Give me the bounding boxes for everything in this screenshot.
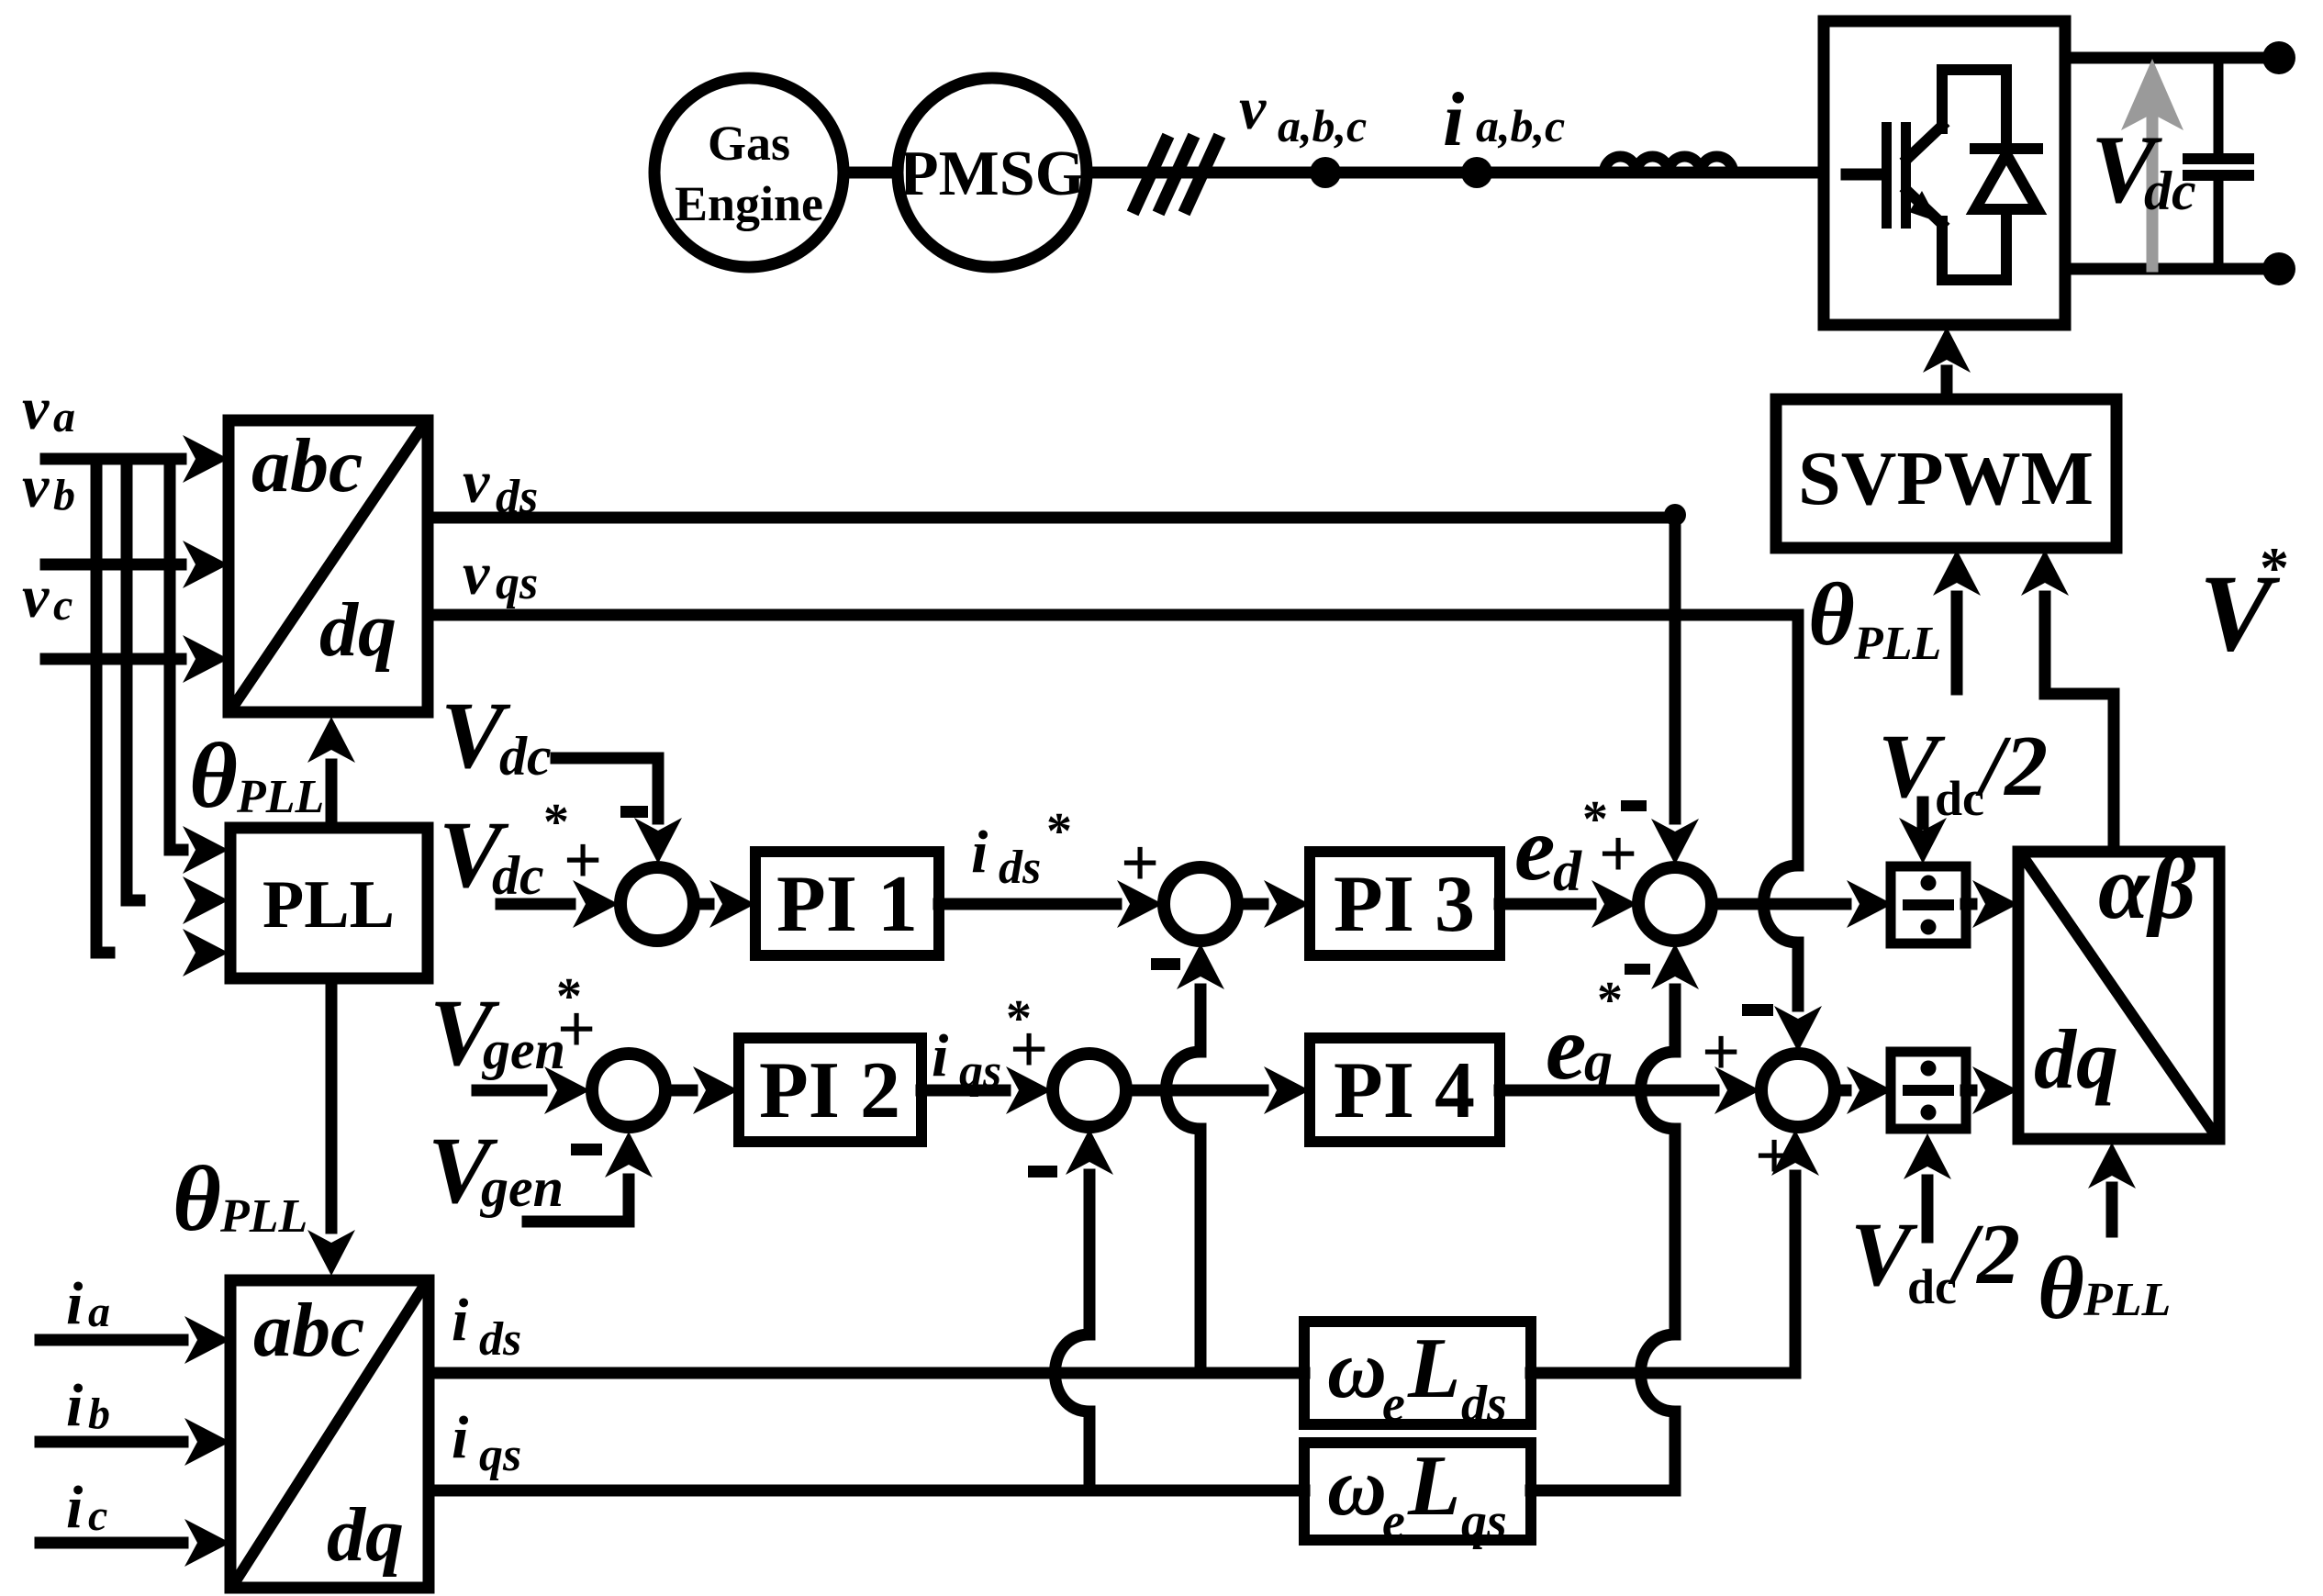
block abc/dq (voltage) xyxy=(229,420,428,712)
svg-text:v: v xyxy=(22,375,50,442)
label va,b,c xyxy=(1239,75,1367,151)
svg-text:θ: θ xyxy=(173,1147,221,1251)
svg-text:v: v xyxy=(463,541,490,608)
svg-text:*: * xyxy=(2260,535,2289,600)
label theta_PLL (at SVPWM) xyxy=(1808,565,1941,670)
block omega_e_Lqs xyxy=(1304,1438,1531,1550)
svg-text:v: v xyxy=(463,449,490,516)
label eq xyxy=(1546,997,1613,1099)
svg-text:i: i xyxy=(932,1022,949,1089)
label vc xyxy=(22,564,73,631)
block abc/dq (current) xyxy=(230,1280,429,1588)
svg-text:qs: qs xyxy=(496,557,538,609)
wire: PI1 to sum S3 (ids*) xyxy=(939,880,1163,928)
summing junction S4 xyxy=(1053,1054,1126,1127)
svg-text:v: v xyxy=(22,453,50,520)
label ia xyxy=(66,1270,110,1337)
wire vb into abc/dq xyxy=(46,541,229,588)
label theta_PLL (at dq block) xyxy=(2038,1239,2171,1338)
wire: DIV1 to alphabeta/dq xyxy=(1966,880,2018,928)
svg-text:+: + xyxy=(1702,1015,1740,1090)
block PLL xyxy=(230,828,428,978)
svg-text:qs: qs xyxy=(479,1429,521,1481)
svg-text:i: i xyxy=(452,1287,469,1354)
svg-text:a,b,c: a,b,c xyxy=(1278,100,1367,151)
wire: theta_PLL into dq block bottom xyxy=(2088,1143,2136,1232)
IGBT/diode loop wires xyxy=(1942,70,2006,280)
label vb xyxy=(22,453,75,520)
summing junction S6 xyxy=(1761,1054,1835,1127)
svg-text:abc: abc xyxy=(251,423,363,508)
wire: S4 to PI4 xyxy=(1126,1066,1310,1114)
svg-text:θ: θ xyxy=(2038,1239,2084,1338)
svg-text:gen: gen xyxy=(479,1157,564,1218)
SVPWM block xyxy=(1776,399,2116,548)
label vds xyxy=(463,449,538,523)
svg-text:ω: ω xyxy=(1327,1442,1387,1533)
block omega_e_Lds xyxy=(1304,1321,1531,1433)
label Vdc (dc-link) xyxy=(2091,116,2196,223)
block PI2 xyxy=(739,1038,921,1142)
wire: Vgen* into sum S2 xyxy=(477,1066,590,1114)
wire ia into abc/dq (current) xyxy=(40,1316,230,1364)
inductor L xyxy=(1604,157,1733,173)
terminal DC+ xyxy=(2262,41,2295,74)
svg-text:c: c xyxy=(53,581,73,630)
divider DIV2 xyxy=(1891,1052,1966,1129)
wire: vb tap to PLL input 2 xyxy=(127,459,229,924)
svg-text:dq: dq xyxy=(327,1492,404,1578)
wire: omega_e_Lds output up into S6 (plus) xyxy=(1531,1130,1819,1373)
label ia,b,c xyxy=(1443,77,1565,162)
wire: PI4 to sum S6 (eq) xyxy=(1500,1066,1760,1114)
svg-text:PI 4: PI 4 xyxy=(1334,1046,1475,1135)
wire: Vdc* into sum S1 xyxy=(501,880,619,928)
wire: V* into SVPWM xyxy=(2021,550,2114,852)
wire: PMSG to converter AC input xyxy=(1087,167,1824,179)
terminal DC- xyxy=(2262,252,2295,285)
wire ids to omega_e_Lds xyxy=(429,1367,1304,1379)
wire: Vdc/2 into DIV1 top xyxy=(1899,802,1947,864)
svg-text:dc: dc xyxy=(2144,161,2196,221)
svg-text:PI 1: PI 1 xyxy=(776,860,918,949)
wire: vc tap to PLL input 3 xyxy=(96,459,229,977)
svg-text:PLL: PLL xyxy=(219,1190,307,1243)
label ic xyxy=(66,1474,107,1541)
wire: PI2 to sum S4 (iqs*) xyxy=(921,1066,1052,1114)
svg-text:i: i xyxy=(66,1372,84,1439)
node ia,b,c xyxy=(1461,157,1492,188)
svg-text:e: e xyxy=(1382,1376,1405,1433)
wire: ids feedback up into S3 (hops over iqs* wire) xyxy=(1167,943,1225,1373)
svg-text:b: b xyxy=(53,471,75,519)
label minus (S1 top) xyxy=(620,806,648,818)
label minus (S5 top) xyxy=(1621,800,1647,811)
svg-text:ds: ds xyxy=(479,1313,521,1366)
svg-text:+: + xyxy=(1010,1012,1048,1088)
svg-text:qs: qs xyxy=(959,1045,1001,1098)
svg-text:θ: θ xyxy=(1808,565,1855,664)
three-phase slash marks xyxy=(1135,141,1217,207)
svg-text:a: a xyxy=(53,393,75,441)
svg-text:Gas: Gas xyxy=(708,116,790,171)
svg-text:i: i xyxy=(66,1474,84,1541)
svg-text:dq: dq xyxy=(319,587,396,673)
svg-text:dc: dc xyxy=(499,726,552,787)
wire: theta_PLL PLL to abc/dq (voltage) xyxy=(307,717,355,828)
block alphabeta/dq xyxy=(2018,836,2219,1139)
svg-text:dc: dc xyxy=(1907,1259,1957,1314)
wire iqs to omega_e_Lqs xyxy=(429,1485,1304,1497)
block PI3 xyxy=(1310,852,1500,955)
svg-text:a: a xyxy=(88,1288,110,1336)
label theta_PLL (upper) xyxy=(189,724,324,828)
svg-text:e: e xyxy=(1514,798,1555,899)
label Vgen* xyxy=(430,968,582,1086)
wire: DIV2 to alphabeta/dq xyxy=(1966,1066,2018,1114)
shaft wire GE-PMSG xyxy=(843,167,898,179)
wire: S2 to PI2 xyxy=(666,1066,739,1114)
divider DIV1 xyxy=(1891,866,1966,943)
converter box xyxy=(1824,21,2065,325)
label V* xyxy=(2199,535,2289,674)
label Vdc* xyxy=(439,794,569,908)
summing junction S5 xyxy=(1638,867,1712,941)
label vqs xyxy=(463,541,538,609)
svg-text:/2: /2 xyxy=(1948,1207,2020,1302)
svg-text:qs: qs xyxy=(1461,1493,1507,1550)
svg-text:PLL: PLL xyxy=(2083,1274,2171,1326)
wire: Vdc into sum S1 (minus) xyxy=(556,758,682,864)
wire vds xyxy=(428,512,1675,524)
svg-text:ω: ω xyxy=(1327,1324,1387,1415)
svg-text:PI 3: PI 3 xyxy=(1334,860,1475,949)
wire: Vdc/2 into DIV2 bottom xyxy=(1904,1133,1951,1237)
svg-text:dc: dc xyxy=(492,845,544,906)
wire ib into abc/dq (current) xyxy=(40,1418,230,1466)
Vdc sense arrow (gray) xyxy=(2121,59,2183,266)
svg-text:PMSG: PMSG xyxy=(899,139,1085,209)
diode D xyxy=(1975,149,2038,209)
IGBT gate bars xyxy=(1882,122,1911,229)
node at vds corner xyxy=(1664,504,1686,526)
summing junction S2 xyxy=(592,1054,665,1127)
svg-text:*: * xyxy=(1046,803,1072,860)
svg-text:i: i xyxy=(971,819,988,886)
wire: Vgen into S2 (minus) xyxy=(528,1132,653,1222)
svg-text:i: i xyxy=(66,1270,84,1337)
gas engine GE xyxy=(654,78,843,267)
svg-text:PLL: PLL xyxy=(1853,618,1941,670)
wire va into abc/dq xyxy=(46,435,229,483)
svg-text:ds: ds xyxy=(1461,1376,1507,1433)
label va xyxy=(22,375,75,442)
label ids xyxy=(452,1287,521,1366)
label minus (S6 top) xyxy=(1742,1004,1773,1016)
svg-text:v: v xyxy=(22,564,50,631)
svg-text:+: + xyxy=(1599,817,1637,892)
IGBT gate lead xyxy=(1847,169,1882,181)
wire: S6 to divider DIV2 xyxy=(1835,1066,1893,1114)
label iqs* xyxy=(932,990,1032,1098)
block PI1 xyxy=(755,852,939,955)
svg-text:/2: /2 xyxy=(1975,719,2048,814)
wire: S3 to PI3 xyxy=(1237,880,1310,928)
label Vdc (feedback) xyxy=(441,683,552,788)
wire: PI3 to sum S5 (ed) xyxy=(1500,880,1637,928)
svg-text:v: v xyxy=(1239,75,1267,142)
wire: theta_PLL PLL down to abc/dq (current) xyxy=(307,978,355,1276)
svg-text:+: + xyxy=(557,992,596,1067)
svg-text:SVPWM: SVPWM xyxy=(1798,436,2094,521)
svg-text:dc: dc xyxy=(1935,771,1984,826)
wire: S1 to PI1 xyxy=(695,880,755,928)
wire: SVPWM to converter xyxy=(1923,327,1971,399)
wire: va tap to PLL input 1 xyxy=(170,459,229,874)
svg-text:abc: abc xyxy=(253,1288,364,1373)
wire vc into abc/dq xyxy=(46,635,229,683)
svg-text:dq: dq xyxy=(2034,1012,2118,1106)
IGBT emitter arrow xyxy=(1909,191,1938,222)
svg-text:i: i xyxy=(1443,77,1464,162)
generator PMSG xyxy=(898,78,1087,267)
label theta_PLL (lower) xyxy=(173,1147,307,1251)
svg-text:b: b xyxy=(88,1390,110,1438)
wire: DC negative rail xyxy=(2065,263,2277,275)
label minus (S4 bottom) xyxy=(1028,1166,1057,1177)
wire: S5 to divider DIV1 xyxy=(1712,880,1893,928)
wire vqs down to sum S6 (hops over ed wire) xyxy=(1764,615,1823,1052)
svg-text:PI 2: PI 2 xyxy=(759,1046,900,1135)
label minus (S3 bottom) xyxy=(1151,958,1180,970)
svg-text:L: L xyxy=(1407,1438,1460,1534)
label minus (S2 bottom) xyxy=(571,1144,602,1155)
label Vdc/2 (bottom) xyxy=(1850,1203,2020,1314)
svg-text:L: L xyxy=(1407,1321,1460,1416)
svg-text:PLL: PLL xyxy=(236,771,324,823)
node va,b,c xyxy=(1310,157,1341,188)
label ed* xyxy=(1514,791,1608,903)
svg-text:*: * xyxy=(1597,972,1623,1029)
svg-text:PLL: PLL xyxy=(262,867,395,943)
svg-text:θ: θ xyxy=(189,724,238,828)
wire: DC positive rail xyxy=(2065,52,2277,64)
svg-text:i: i xyxy=(452,1404,469,1471)
summing junction S1 xyxy=(620,867,694,941)
label iqs xyxy=(452,1404,521,1481)
IGBT collector/emitter xyxy=(1907,70,1942,280)
svg-text:e: e xyxy=(1546,997,1586,1099)
svg-text:αβ: αβ xyxy=(2098,836,2196,938)
wire: iqs feedback up into S4 (hops over ids wire) xyxy=(1055,1129,1114,1490)
wire ic into abc/dq (current) xyxy=(40,1519,230,1567)
svg-text:ds: ds xyxy=(999,842,1041,894)
label ids* xyxy=(971,803,1072,894)
capacitor C xyxy=(2188,58,2249,269)
svg-text:c: c xyxy=(88,1491,107,1540)
wire vds down to sum S5 xyxy=(1651,518,1699,865)
wire vqs xyxy=(428,609,1798,621)
label Vgen (feedback) xyxy=(428,1118,564,1223)
svg-text:e: e xyxy=(1382,1493,1405,1550)
wire: theta_PLL into SVPWM xyxy=(1933,550,1981,689)
wire: omega_e_Lqs output up into S5 (minus, hops over ids and eq wires) xyxy=(1531,943,1699,1490)
svg-text:d: d xyxy=(1553,841,1582,903)
summing junction S3 xyxy=(1164,867,1237,941)
label Vdc/2 (top) xyxy=(1878,715,2048,826)
svg-text:a,b,c: a,b,c xyxy=(1476,100,1565,151)
block PI4 xyxy=(1310,1038,1500,1142)
svg-text:Engine: Engine xyxy=(675,176,823,231)
label minus (S5 bottom) xyxy=(1625,964,1650,975)
svg-text:+: + xyxy=(1121,826,1159,901)
label ib xyxy=(66,1372,110,1439)
svg-text:q: q xyxy=(1584,1031,1613,1093)
